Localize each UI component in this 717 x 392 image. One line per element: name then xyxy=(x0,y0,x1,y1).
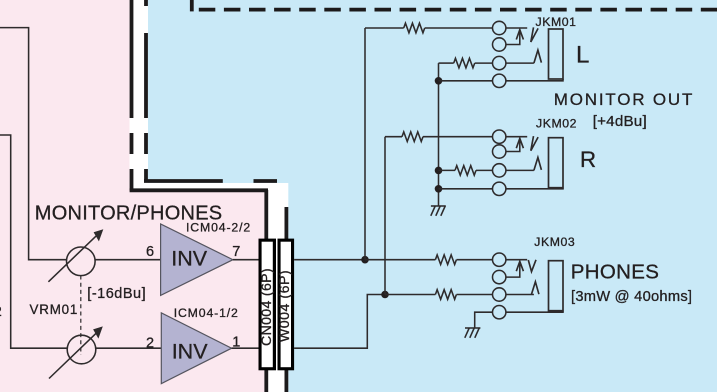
resistor JKM03 tip xyxy=(435,255,456,265)
JKM03 switch arm wire xyxy=(506,263,520,277)
pink page dashed border: vertical right (along connector) xyxy=(264,190,268,392)
potentiometer VRM01 section A xyxy=(48,234,98,282)
JKM03 switch arrowhead xyxy=(516,261,523,271)
ground (JKM03 sleeve) xyxy=(465,328,481,338)
resistor JKM03 ring xyxy=(435,290,456,300)
JKM02 body xyxy=(549,138,564,188)
JKM01 body xyxy=(549,29,564,79)
JKM01 ring spring contact xyxy=(534,50,542,63)
node A junction dot xyxy=(361,256,369,264)
JKM03 ring spring contact xyxy=(531,282,539,295)
junction dot JKM02 ring xyxy=(435,167,443,175)
svg-text:ICM04-1/2: ICM04-1/2 xyxy=(174,306,239,320)
blue page dashed border: vertical left xyxy=(144,0,148,182)
ganged pot dashed link xyxy=(80,276,82,356)
svg-text:[+4dBu]: [+4dBu] xyxy=(593,113,647,130)
JKM02 contact circles xyxy=(493,130,506,143)
junction dot JKM01 sleeve xyxy=(435,77,443,85)
wire: W004 to row R step xyxy=(294,295,385,349)
svg-text:JKM01: JKM01 xyxy=(536,15,577,29)
potentiometer VRM01 section B xyxy=(49,332,98,379)
JKM03 tip spring contact V xyxy=(528,260,536,272)
wire: node B to JKM03 ring resistor xyxy=(385,294,435,296)
svg-text:L: L xyxy=(576,41,589,68)
wire: INV1 output to CN004 xyxy=(233,259,259,261)
wire: node A up to JKM01 tip row xyxy=(364,28,366,260)
blue page dashed border: vertical right (along connector) xyxy=(284,207,288,392)
connector W004 (6P) xyxy=(278,239,295,371)
connector CN004 (6P) xyxy=(259,239,277,371)
svg-text:2: 2 xyxy=(0,303,2,319)
wire: resistor to JKM01 tip contact xyxy=(425,27,493,29)
svg-text:PHONES: PHONES xyxy=(571,261,659,284)
JKM03 ring wire xyxy=(506,294,534,296)
JKM01 switch arrowhead xyxy=(516,30,523,40)
resistor JKM02 ring xyxy=(455,166,476,176)
JKM02 ring wire xyxy=(506,169,534,171)
wire: INV2 output to CN004 xyxy=(232,347,259,349)
wire: JKM01 sleeve to dot xyxy=(439,80,493,82)
blue page dashed border: top horizontal xyxy=(190,0,194,11)
JKM03 sleeve wire to ground xyxy=(475,312,493,328)
JKM01 sleeve wire xyxy=(506,79,563,81)
ground (JKM01/02 sleeve) xyxy=(431,206,446,216)
wire: input L from left edge to pot VRM01-1 xyxy=(0,28,67,260)
JKM02 tip spring contact V xyxy=(531,136,538,151)
JKM01 switch arm wire xyxy=(506,32,520,45)
jack JKM01 xyxy=(493,21,564,87)
svg-text:6: 6 xyxy=(146,244,154,260)
svg-text:MONITOR OUT: MONITOR OUT xyxy=(554,90,694,109)
wire: resistor to JKM02 ring contact xyxy=(476,169,493,171)
blue page dashed border: horizontal xyxy=(144,179,277,183)
svg-text:W004 (6P): W004 (6P) xyxy=(277,270,293,342)
svg-text:JKM02: JKM02 xyxy=(536,117,577,131)
wire: resistor to JKM03 tip contact xyxy=(457,259,493,261)
JKM02 ring spring contact xyxy=(534,157,542,170)
wire: dot to JKM02 sleeve contact xyxy=(439,188,493,190)
op-amp U ICM04-1/2 (INV) xyxy=(161,313,231,384)
JKM01 contact circles xyxy=(493,21,506,34)
pink page dashed border: horizontal xyxy=(130,188,268,192)
jack JKM02 xyxy=(493,130,564,196)
wire: JKM02 tip row lead xyxy=(385,136,402,138)
svg-text:VRM01: VRM01 xyxy=(30,302,79,317)
wire: input R from left edge to pot VRM01-2 xyxy=(0,135,67,348)
svg-text:7: 7 xyxy=(232,244,240,260)
svg-text:INV: INV xyxy=(171,247,208,271)
pink page dashed border: vertical left xyxy=(130,0,134,191)
wire: W004 to node A (row L) xyxy=(294,259,365,261)
wire: resistor to JKM01 ring contact xyxy=(475,62,493,64)
JKM02 sleeve wire xyxy=(506,188,563,189)
JKM03 contact circles xyxy=(493,253,506,266)
jack JKM03 xyxy=(475,253,563,328)
wire: branch to JKM01 ring resistor xyxy=(439,62,454,64)
wire: resistor to JKM03 ring contact xyxy=(457,294,493,296)
wire: resistor to JKM02 tip contact xyxy=(423,136,493,138)
pink page region xyxy=(0,0,265,392)
wire: node A to JKM03 tip resistor xyxy=(365,259,435,261)
resistor JKM02 tip xyxy=(402,132,423,142)
arrowhead pot B xyxy=(93,326,103,338)
JKM01 tip wire stub xyxy=(506,27,527,29)
svg-text:[3mW @ 40ohms]: [3mW @ 40ohms] xyxy=(571,289,692,305)
JKM02 switch arm wire xyxy=(506,140,520,151)
wire: dot to JKM02 ring resistor xyxy=(439,169,456,171)
wire: JKM01 tip row lead xyxy=(365,27,404,29)
arrowhead pot A xyxy=(94,229,104,241)
resistor JKM01 ring xyxy=(454,58,475,68)
node B junction dot xyxy=(381,291,389,299)
op-amp U ICM04-2/2 (INV) xyxy=(161,224,233,295)
wire: pot B wiper to INV2 input xyxy=(96,347,162,349)
JKM03 tip wire stub xyxy=(506,259,527,261)
junction dot JKM02 sleeve xyxy=(435,185,443,193)
wire: JKM01 ring branch vertical xyxy=(438,63,440,206)
svg-text:CN004 (6P): CN004 (6P) xyxy=(259,268,275,346)
svg-text:R: R xyxy=(580,147,596,172)
svg-text:INV: INV xyxy=(172,339,209,363)
svg-text:2: 2 xyxy=(146,336,154,352)
resistor JKM01 tip xyxy=(404,23,425,33)
JKM03 body xyxy=(549,261,564,311)
svg-text:[-16dBu]: [-16dBu] xyxy=(87,286,146,302)
JKM03 sleeve wire right xyxy=(506,311,563,313)
JKM01 tip spring contact V xyxy=(531,27,538,42)
JKM02 tip wire stub xyxy=(506,136,527,138)
blue page region xyxy=(148,0,717,392)
JKM02 switch arrowhead xyxy=(516,138,523,148)
svg-text:ICM04-2/2: ICM04-2/2 xyxy=(186,221,251,235)
wire: pot A wiper to INV1 input xyxy=(95,259,161,261)
JKM01 ring wire xyxy=(506,62,534,64)
wire: node B up to JKM02 tip row xyxy=(384,137,386,295)
svg-text:JKM03: JKM03 xyxy=(534,235,575,249)
